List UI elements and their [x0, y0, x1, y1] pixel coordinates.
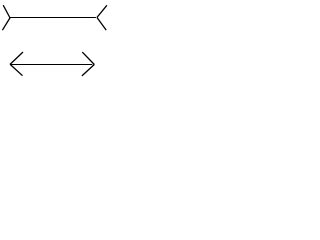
top shaft line (Muller-Lyer wings-out figure)	[9, 17, 96, 19]
bottom-left arrowhead upper barb	[10, 52, 23, 65]
top-right upper fin	[97, 5, 107, 17]
top-right lower fin	[97, 18, 106, 31]
top-left lower fin	[2, 18, 10, 31]
bottom-right arrowhead upper barb	[82, 52, 94, 64]
top-left upper fin	[3, 5, 10, 17]
bottom-right arrowhead lower barb	[82, 65, 94, 76]
background	[0, 0, 115, 83]
bottom-left arrowhead lower barb	[10, 65, 22, 76]
bottom shaft line (double-headed arrow figure)	[11, 64, 93, 66]
